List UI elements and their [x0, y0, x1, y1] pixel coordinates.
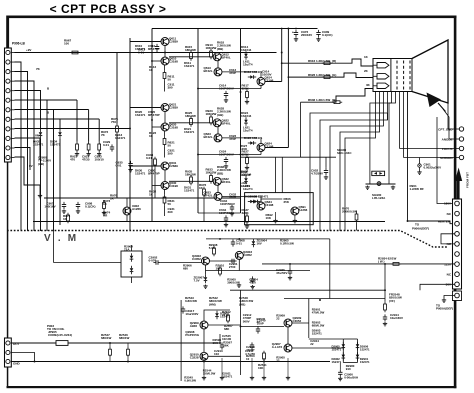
svg-text:R616 1.2K/1.5W: R616 1.2K/1.5W [308, 59, 330, 63]
resistor R2934 62/1W [391, 263, 393, 265]
wire rail x198 [197, 29, 199, 214]
resistor R971 750 [116, 124, 118, 126]
svg-text:R626 1.2K/1.5W: R626 1.2K/1.5W [308, 73, 330, 77]
wire G cathode line [288, 73, 373, 78]
pin 1 of P903 [6, 341, 10, 345]
svg-text:D630 1S2471: D630 1S2471 [250, 195, 269, 199]
svg-text:P906A(DEF): P906A(DEF) [412, 226, 429, 230]
svg-text:ANODE: ANODE [442, 138, 453, 142]
capacitor C934 100P/500V [231, 204, 233, 207]
transistor Q614 C3198 [257, 78, 265, 86]
border top [7, 16, 457, 19]
diode D2906 1S2471 [357, 342, 359, 344]
junction dots [129, 128, 131, 130]
FOCUS pin [459, 146, 463, 150]
transistor Q2909 A928 [200, 321, 208, 329]
pin 2 of P904A [455, 211, 460, 216]
pin 3 of P903 [6, 359, 10, 363]
wire gun k3 [330, 92, 384, 232]
pin 11 of P906 [6, 146, 10, 150]
zener ZD2904 16V [252, 239, 254, 241]
wire VM y270.5 [206, 270, 311, 272]
wire y290 to Q2908 [204, 310, 230, 321]
resistor R2546 680/1W [127, 347, 129, 349]
wire rail y221.5 [33, 221, 385, 223]
pin 5 of P904A [455, 242, 460, 247]
svg-text:FROM FBT: FROM FBT [466, 172, 470, 188]
transistor Q622 BF40L [213, 119, 221, 127]
capacitor C923 100/10 [98, 142, 100, 144]
capacitor C972 200/16V [295, 30, 297, 33]
wire rail y198 [44, 197, 241, 199]
wire gun k2 [340, 92, 380, 232]
wire pin8 [15, 119, 61, 130]
pin 4 of P904A [455, 232, 460, 237]
wire spark gap right [388, 103, 390, 184]
resistor R2547 680/1W [109, 347, 111, 349]
wire emitter rail Q624 [198, 154, 261, 156]
transistor Q691 A1266 [291, 207, 299, 215]
wire base input Q631 [130, 165, 161, 167]
pin 8 of P904A [455, 272, 460, 277]
CRT funnel [412, 40, 448, 103]
wire base link Q621-Q622 [169, 122, 213, 124]
border bottom [7, 386, 457, 388]
SCREEN pin [459, 155, 463, 159]
svg-text:CPT_GND: CPT_GND [438, 128, 453, 132]
diode D934 1S2471 [59, 130, 61, 132]
svg-text:R637320K: R637320K [242, 208, 250, 215]
wire base Q620 [152, 126, 161, 128]
wire Q624 out [265, 147, 288, 149]
resistor R2541 10K [263, 351, 265, 353]
transistor Q620 C3198 [161, 123, 169, 131]
wire gun g3 to spark gap [370, 92, 396, 185]
svg-text:Q2903C3052: Q2903C3052 [243, 250, 252, 257]
wire col x88.6 [88, 110, 90, 142]
svg-text:FOCUS: FOCUS [442, 147, 453, 151]
connector P904A [453, 199, 462, 289]
transistor Q2910 C3228 [200, 352, 208, 360]
capacitor C921 47/35 [88, 142, 90, 144]
wire diode array [342, 339, 344, 363]
svg-text:Q2902C3052: Q2902C3052 [192, 254, 201, 261]
capacitor C935 0-01 [130, 161, 132, 164]
pin 3 of P906 [6, 70, 10, 74]
wire lower output [284, 298, 385, 300]
wire VM bottom rail [230, 289, 385, 291]
pin 6 of P904A [455, 252, 460, 257]
CPT GND pin [459, 127, 463, 131]
wire rail x130 [129, 38, 131, 231]
capacitor C908 0.1(CK) [77, 202, 79, 205]
wire pin3 [15, 72, 28, 232]
transistor Q2903 C3052 [235, 251, 243, 259]
capacitor C2913 103 [221, 342, 223, 345]
connector P903 [5, 338, 12, 367]
extra pin below connector [453, 291, 462, 301]
svg-text:GND: GND [13, 362, 21, 366]
svg-text:C92147/35: C92147/35 [82, 155, 90, 162]
transistor Q612 BF40L [213, 53, 221, 61]
pin 1 of P904A [455, 201, 460, 206]
VM diode box [121, 251, 142, 277]
transistor Q621 C2839 [161, 104, 169, 112]
wire B line riser [300, 102, 302, 157]
wire out to amp [219, 334, 221, 343]
wire OUT [11, 342, 56, 344]
pin 2 of P906 [6, 60, 10, 64]
wire pin12 [15, 157, 41, 185]
svg-text:+: + [292, 31, 294, 35]
capacitor C2911 4.7u/50 [251, 342, 253, 345]
wire collector Q623 [222, 137, 257, 139]
ANODE pin [459, 137, 463, 141]
svg-text:R617320K: R617320K [242, 84, 250, 91]
pin 10 of P906 [6, 136, 10, 140]
wire 180V drop [437, 117, 455, 204]
pin 1 of P906 [6, 50, 10, 54]
FROM FBT arrow [455, 168, 462, 182]
border left upper thick [6, 16, 9, 50]
pin 7 of P906 [6, 108, 10, 112]
wire pin4 [15, 81, 35, 231]
capacitor C2908 0-01 [232, 239, 234, 242]
capacitor C2902 0-076 [153, 262, 156, 264]
wire collector Q613 [222, 71, 257, 73]
CRT cathode fingers [373, 64, 377, 66]
transistor Q610 C3198 [161, 57, 169, 65]
svg-text:Q2909C3052: Q2909C3052 [293, 316, 302, 323]
spark gap SG900 box [372, 171, 385, 175]
wire R cathode line [282, 59, 373, 66]
svg-text:180V: 180V [444, 202, 451, 206]
capacitor C929 0-01 [111, 144, 113, 147]
pin 9 of P906 [6, 127, 10, 131]
resistor R976 1K [203, 187, 205, 189]
pin 4 of P906 [6, 79, 10, 83]
transistor Q2907 [284, 344, 292, 352]
CRT grids [396, 61, 398, 90]
lower amp wires [203, 329, 205, 352]
wire vm to output column [384, 264, 386, 302]
VM grounds [205, 285, 207, 286]
transistor Q2902 C3052 [202, 257, 210, 265]
wire focus [399, 92, 401, 149]
capacitor C2917 10u/100V [182, 306, 184, 309]
wire emitter rail Q634 [198, 212, 241, 214]
wire col x117 [116, 53, 118, 124]
wire lower left rail [180, 300, 182, 381]
connector P906-LB [5, 48, 12, 162]
border left lower thin [7, 162, 9, 389]
CRT anode arrow [427, 93, 442, 108]
wire pin1 +9V bus [15, 52, 277, 54]
transistor Q2909 [284, 319, 292, 327]
wire pin5 [15, 91, 41, 130]
wire col x77 [76, 100, 78, 142]
pin 5 of P906 [6, 89, 10, 93]
CRT gun divider [390, 59, 392, 92]
spark gap SG900 rail [366, 183, 396, 185]
wire base input Q621 [130, 107, 161, 109]
svg-text:R627120K: R627120K [240, 144, 248, 151]
wire collector Q633 [222, 195, 257, 197]
pin 8 of P906 [6, 117, 10, 121]
ABL block box [245, 193, 314, 225]
pin 6 of P906 [6, 98, 10, 102]
wire pin4 elbow [441, 234, 455, 244]
svg-text:+9V: +9V [26, 48, 31, 52]
pin 2 of P903 [6, 350, 10, 354]
pin 3 of P904A [455, 221, 460, 226]
VM dashed separator [7, 231, 448, 248]
transistor Q632 BF40L [213, 177, 221, 185]
wire pin9 [15, 128, 131, 130]
svg-text:HEATER: HEATER [438, 219, 451, 223]
transistor X902 A1266 [123, 207, 131, 215]
wire GND [11, 361, 330, 363]
svg-text:Q2910C3228: Q2910C3228 [190, 353, 199, 360]
pin 12 of P906 [6, 155, 10, 159]
capacitor C909 0.1(CK) [318, 30, 320, 33]
capacitor C901 0.0022u/2KV [419, 158, 421, 164]
transistor Q624 C3198 [257, 144, 265, 152]
wire B cathode line [301, 89, 374, 103]
wire gun g2b [391, 92, 393, 104]
diode D2901 1S2471 [357, 352, 359, 354]
svg-text:C254510/100: C254510/100 [222, 334, 232, 341]
transistor Q633 BF42L [214, 192, 222, 200]
inductor JP905 [56, 341, 68, 346]
svg-text:SCREEN: SCREEN [440, 156, 453, 160]
resistor R975 1K [67, 213, 69, 215]
pin 9 of P904A [455, 282, 460, 287]
svg-text:V . M: V . M [44, 233, 78, 244]
wire gun g2 [310, 113, 388, 231]
wire rail x288.4 [287, 29, 289, 148]
transistor Q631 C2839 [161, 162, 169, 170]
resistor R973 1K [103, 200, 105, 202]
wire pin2 [15, 62, 22, 231]
wire gun g1 [320, 92, 388, 232]
wire base link Q631-Q632 [169, 180, 213, 182]
wire 36V pin9 [420, 284, 455, 290]
lower ground row [203, 358, 205, 376]
capacitor C2914 10u/160V [384, 314, 386, 317]
diode D2907 1S2471 [216, 311, 218, 313]
border right [454, 16, 457, 389]
wire pin10 [15, 138, 41, 160]
svg-text:P906-LB: P906-LB [12, 42, 25, 46]
ground in ABL box [275, 212, 277, 219]
resistor R921 470 [76, 142, 78, 144]
svg-text:< CPT PCB ASSY >: < CPT PCB ASSY > [50, 2, 167, 16]
transistor Q634 C3198 [257, 202, 265, 210]
wire pin6 [15, 100, 48, 231]
wire base input Q611 [130, 41, 161, 43]
svg-text:(G): (G) [332, 73, 336, 77]
wire rail x281.7 [281, 29, 283, 82]
wire pin7 [15, 110, 54, 232]
wire col x99.2 [98, 119, 100, 142]
wire rail x152 [151, 29, 153, 222]
wire mid pin [11, 353, 34, 362]
wire VM input [54, 262, 122, 264]
svg-text:(R): (R) [332, 59, 336, 63]
resistor R2912 22 [227, 313, 229, 315]
capacitor C933 0-01 [154, 157, 156, 159]
wire heater drop [407, 92, 409, 222]
wire gun k1 [345, 92, 376, 232]
diode D935 1S2471 [40, 130, 42, 132]
wire pin11 [15, 148, 31, 171]
capacitor C2900 0-56u/50H [339, 370, 341, 373]
diode D2905 1S2471 [342, 342, 344, 344]
wire top rail y28.5 [152, 28, 318, 30]
wire Q634 out [261, 199, 282, 203]
wire emitter rail Q614 [198, 88, 261, 90]
wire VM mid [210, 260, 236, 262]
diode D2902 1S2471 [342, 352, 344, 354]
wire base Q610 [152, 60, 161, 62]
transistor Q623 BF42L [214, 134, 222, 142]
wire y157 cross [240, 156, 336, 158]
wire base link Q611-Q612 [169, 56, 213, 58]
capacitor C907 100/16V [63, 202, 65, 205]
wire Q2902 emitter [205, 265, 207, 275]
wire VM collector rail [206, 238, 330, 240]
transistor Q613 BF42L [214, 68, 222, 76]
wire screen [403, 92, 405, 158]
wire Q614 out [265, 81, 282, 83]
transistor Q630 C3198 [161, 182, 169, 190]
wire 115V output [262, 263, 455, 265]
svg-text:R636 1.2K/1.5W: R636 1.2K/1.5W [308, 98, 330, 102]
wire OUT cont [68, 342, 220, 344]
transistor Q611 C2839 [161, 38, 169, 46]
wire base Q630 [152, 185, 161, 187]
pin 7 of P904A [455, 262, 460, 267]
CRT electron gun box [373, 59, 412, 92]
wire rail x240.5 [240, 29, 242, 214]
svg-text:9V: 9V [29, 164, 33, 168]
